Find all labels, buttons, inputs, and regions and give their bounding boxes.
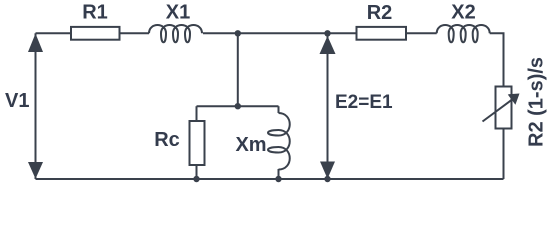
wire Rc to bottom	[196, 165, 198, 179]
inductor Xm	[268, 113, 290, 170]
svg-text:X1: X1	[166, 2, 190, 24]
svg-text:Xm: Xm	[235, 134, 266, 156]
arrow E2 up	[320, 36, 336, 54]
node dot top E2-junction	[324, 30, 330, 36]
node dot top X1-junction	[235, 30, 241, 36]
arrow V1 up	[28, 34, 43, 53]
wire middle branch vertical	[237, 33, 239, 106]
variable resistor arrowhead	[508, 94, 520, 105]
svg-text:R2: R2	[367, 2, 393, 24]
svg-text:X2: X2	[451, 2, 475, 24]
wire left rail V1 branch	[35, 33, 37, 179]
wire bar to Rc	[196, 106, 198, 121]
inductor X1	[149, 25, 202, 42]
svg-text:E2=E1: E2=E1	[335, 92, 393, 113]
node dot bar junction	[235, 103, 241, 109]
arrow E2 down	[320, 162, 335, 179]
node dot bottom E2	[324, 176, 330, 182]
resistor R2(1-s)/s variable	[496, 87, 512, 129]
wire R2 to X2	[406, 32, 437, 34]
svg-text:R1: R1	[82, 2, 108, 24]
wire Xm to bottom	[278, 169, 280, 179]
svg-text:Rc: Rc	[154, 129, 180, 151]
arrow V1 down	[28, 162, 43, 179]
node dot bottom Rc	[193, 176, 199, 182]
wire right below variable resistor	[503, 129, 505, 180]
wire X2 to top-right corner	[490, 33, 504, 86]
wire bottom rail	[36, 178, 504, 180]
wire top-left segment	[36, 32, 72, 34]
inductor X2	[437, 25, 490, 42]
wire E2 branch	[327, 33, 329, 179]
svg-text:R2 (1-s)/s: R2 (1-s)/s	[526, 57, 548, 147]
wire bar to Xm	[278, 106, 280, 113]
resistor R1	[71, 27, 120, 40]
wire X1 to R2	[203, 32, 357, 34]
variable resistor arrow shaft	[483, 100, 513, 122]
resistor Rc	[190, 121, 205, 165]
resistor R2	[357, 27, 407, 40]
node dot bottom Xm	[275, 176, 281, 182]
svg-text:V1: V1	[5, 90, 29, 112]
wire parallel bar	[197, 105, 279, 107]
wire between R1 and X1	[120, 32, 150, 34]
